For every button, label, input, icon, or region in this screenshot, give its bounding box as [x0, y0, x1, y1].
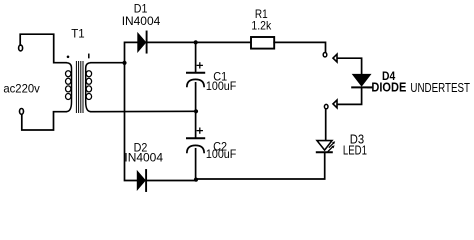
wire D2 cathode to bottom junction [146, 179, 196, 181]
diode D4 (under test) [352, 75, 371, 88]
wire C1 to mid junction [195, 83, 197, 112]
mid junction dot C1/C2 [194, 109, 198, 113]
svg-text:DIODE: DIODE [371, 80, 406, 95]
svg-text:LED1: LED1 [343, 144, 367, 158]
svg-text:IN4004: IN4004 [124, 151, 163, 165]
C2 curved plate [187, 145, 204, 152]
wire transformer secondary bottom to mid junction [91, 110, 196, 112]
T1 polarity dot left [67, 56, 70, 59]
junction dot bottom rail / C2 [194, 178, 198, 182]
wire R1 to top test terminal [274, 42, 325, 52]
terminal bottom-left [20, 109, 24, 115]
capacitor C2 [187, 111, 204, 179]
wire terminal top-left to transformer [20, 34, 66, 63]
C1 plus sign [197, 63, 202, 68]
junction dot at C1 top [194, 40, 198, 44]
test plug bottom [333, 100, 337, 108]
svg-text:ac220v: ac220v [3, 82, 40, 96]
wire transformer secondary top to node A [91, 62, 125, 64]
wire test terminal bottom to LED D3 [325, 109, 327, 141]
wire mid junction to C2 [195, 111, 197, 137]
LED arrow 1 [329, 143, 333, 147]
C2 plus sign [197, 128, 202, 133]
wire terminal bottom-left to transformer [22, 112, 66, 130]
wire D4 cathode to bottom test plug [338, 87, 362, 104]
terminal top-left [19, 45, 23, 51]
LED D3 [317, 141, 335, 153]
wire D1 cathode to R1 [147, 41, 251, 43]
T1 polarity dot right [88, 54, 90, 57]
C1 curved plate [187, 79, 204, 86]
wire LED D3 to bottom rail [196, 152, 325, 179]
T1 core [76, 62, 83, 113]
C1 top plate [187, 72, 204, 74]
transformer T1 [66, 54, 92, 112]
wire node A up to D1 anode [125, 42, 138, 62]
wire C2 to bottom junction [195, 149, 197, 180]
test terminal top (socket) [323, 53, 327, 57]
resistor R1 [251, 37, 274, 49]
diode D1 [138, 32, 147, 53]
svg-text:1.2k: 1.2k [251, 19, 272, 33]
svg-text:UNDERTEST: UNDERTEST [410, 80, 470, 95]
T1 primary winding [66, 63, 72, 112]
capacitor C1 [187, 42, 204, 111]
wire node A down to D2 anode [125, 63, 138, 181]
svg-text:100uF: 100uF [206, 147, 236, 161]
leader line to DIODE text [368, 86, 372, 88]
diode D2 [137, 170, 146, 191]
C2 top plate [187, 137, 204, 139]
svg-text:T1: T1 [71, 27, 85, 41]
T1 secondary winding [86, 63, 91, 112]
svg-text:IN4004: IN4004 [122, 14, 161, 28]
node A junction dot [122, 61, 126, 65]
test terminal bottom (socket) [324, 104, 328, 108]
test plug top [333, 54, 337, 62]
wire test plug top to D4 anode [338, 58, 362, 74]
svg-text:100uF: 100uF [206, 79, 236, 93]
wire top rail to C1 [195, 42, 197, 71]
LED arrow 2 [328, 147, 333, 152]
